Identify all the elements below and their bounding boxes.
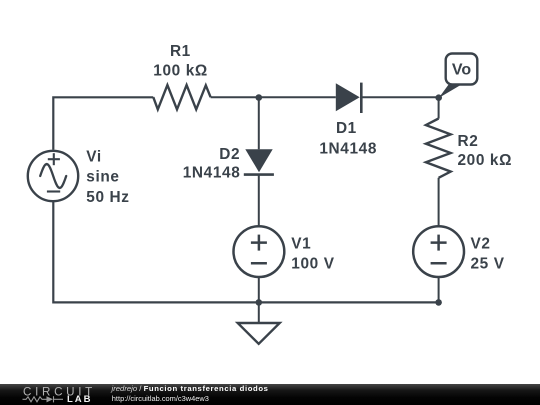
footer bar: [0, 384, 540, 405]
svg-text:1N4148: 1N4148: [183, 165, 241, 182]
svg-text:100 V: 100 V: [291, 255, 334, 272]
svg-text:R2: R2: [458, 133, 479, 150]
svg-text:LAB: LAB: [67, 394, 93, 405]
wire R1 to D1: [211, 96, 336, 98]
wire D2 to V1: [258, 175, 260, 227]
svg-text:V2: V2: [471, 235, 491, 252]
svg-text:1N4148: 1N4148: [319, 141, 377, 158]
junction dot V2 bottom: [435, 299, 442, 306]
svg-text:Vi: Vi: [86, 149, 102, 166]
wire node Vo down to R2: [438, 97, 440, 118]
wire V2 to bottom node: [438, 277, 440, 302]
svg-text:sine: sine: [86, 169, 119, 186]
resistor R2: [426, 119, 451, 178]
voltage source Vi (sine 50 Hz): [28, 151, 78, 201]
svg-text:50 Hz: 50 Hz: [86, 189, 129, 206]
wire node Vo junction to D2 column: [258, 97, 260, 149]
ground symbol: [238, 323, 280, 344]
svg-text:http://circuitlab.com/c3w4ew3: http://circuitlab.com/c3w4ew3: [112, 394, 209, 403]
footer logo resistor+diode symbol: [23, 396, 64, 402]
wire top-left horizontal (Vi top to R1): [53, 97, 153, 150]
svg-text:jredrejo / Funcion transferenc: jredrejo / Funcion transferencia diodos: [111, 384, 269, 393]
voltage source V2 (25 V): [413, 226, 464, 277]
svg-text:25 V: 25 V: [471, 255, 505, 272]
svg-text:D1: D1: [336, 120, 357, 137]
resistor R1: [153, 85, 210, 109]
diode D2: [244, 149, 274, 174]
wire Vi bottom + bottom rail: [53, 201, 438, 302]
svg-text:200 kΩ: 200 kΩ: [458, 152, 513, 169]
junction dot ground node: [255, 299, 262, 306]
svg-text:V1: V1: [291, 235, 311, 252]
svg-text:100 kΩ: 100 kΩ: [153, 62, 208, 79]
wire R2 to V2: [438, 178, 440, 226]
diode D1: [336, 83, 362, 113]
node flag Vo box: [439, 54, 478, 99]
junction dot node A (R1/D1/D2): [255, 94, 262, 101]
wire D1 to node Vo: [361, 96, 438, 98]
svg-text:Vo: Vo: [452, 61, 471, 78]
wire ground stub: [258, 302, 260, 322]
svg-text:D2: D2: [219, 146, 240, 163]
wire V1 to bottom wire: [258, 277, 260, 302]
voltage source V1 (100 V): [234, 226, 285, 277]
svg-text:R1: R1: [170, 43, 191, 60]
junction dot node Vo: [435, 94, 442, 101]
